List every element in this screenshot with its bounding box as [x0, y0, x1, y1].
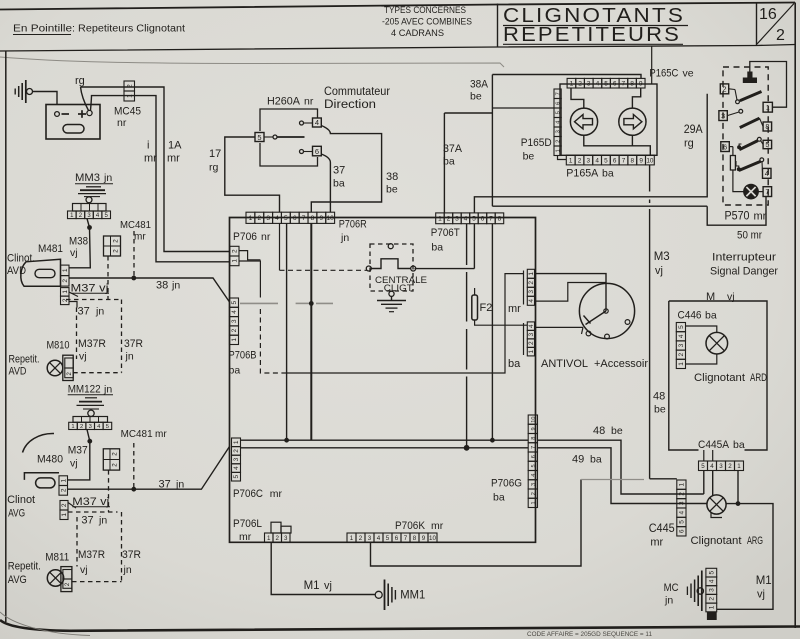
svg-text:vj: vj	[70, 247, 78, 259]
svg-text:6: 6	[395, 535, 399, 542]
hazard button symbol	[743, 78, 757, 84]
lamp Clinot AVG body	[24, 473, 59, 480]
svg-text:jn: jn	[103, 384, 112, 396]
svg-text:1: 1	[679, 482, 686, 486]
svg-text:jn: jn	[340, 232, 349, 244]
svg-text:8: 8	[531, 437, 537, 440]
svg-text:6: 6	[723, 142, 727, 151]
junction dot 49ba	[464, 445, 470, 451]
connector M481 pins 1-2	[61, 265, 70, 276]
svg-text:MC481: MC481	[121, 428, 153, 440]
svg-text:Direction: Direction	[324, 99, 376, 111]
svg-text:7: 7	[302, 215, 306, 222]
pin 3 P570	[719, 111, 727, 121]
svg-text:M37R: M37R	[78, 549, 105, 561]
dashed wire M37R vj vertical	[76, 308, 78, 360]
svg-text:mr: mr	[134, 232, 146, 243]
svg-text:P570: P570	[725, 211, 750, 223]
svg-text:3: 3	[528, 290, 535, 294]
svg-text:1: 1	[62, 268, 69, 272]
svg-text:M480: M480	[37, 454, 63, 466]
pin 1 P570	[763, 102, 772, 112]
svg-text:MC481: MC481	[120, 219, 151, 231]
svg-text:P165C: P165C	[649, 68, 678, 80]
svg-text:M37: M37	[68, 445, 88, 457]
svg-text:2: 2	[678, 353, 685, 357]
wire P570 pin1 over top to button	[750, 62, 787, 108]
connector P706 nr (2 pins)	[230, 246, 239, 256]
connector strip P706T pins 1-8	[436, 213, 445, 224]
connector strip P706R pins 1-10	[246, 212, 255, 223]
dashed wire 37R jn vertical	[121, 300, 123, 373]
svg-text:Signal Danger: Signal Danger	[710, 266, 778, 278]
svg-text:3: 3	[284, 535, 288, 542]
svg-text:2: 2	[232, 249, 239, 253]
svg-text:H260A: H260A	[267, 96, 301, 108]
svg-text:be: be	[523, 151, 535, 163]
wire: battery + to rg feed	[81, 87, 89, 111]
svg-text:10: 10	[326, 215, 334, 222]
svg-text:1: 1	[233, 440, 240, 444]
resistor in P570	[732, 147, 734, 156]
svg-text:1: 1	[531, 501, 537, 504]
pin 5 H260A	[255, 133, 264, 142]
svg-text:TYPES CONCERNES: TYPES CONCERNES	[384, 5, 466, 16]
lamp Clinot AVD body	[21, 259, 61, 286]
connector M480 pins 1-2	[59, 476, 68, 486]
hazard wiring box	[669, 301, 767, 450]
svg-text:7: 7	[556, 92, 562, 95]
svg-text:37R: 37R	[124, 338, 143, 350]
wire 38 jn from M481 pin2	[69, 278, 230, 302]
svg-text:6: 6	[613, 157, 617, 164]
svg-text:M481: M481	[38, 243, 63, 255]
svg-text:2: 2	[723, 85, 727, 94]
svg-text:2: 2	[276, 535, 280, 542]
dashed wire 37R jn vertical (AVG)	[121, 512, 123, 582]
wire M3 vj: P165A pin10 down to C445 pin1 (hops at crossings)	[649, 165, 651, 192]
svg-text:5: 5	[765, 140, 769, 149]
switch lever	[277, 136, 305, 138]
junction dot right of ARG lamp	[736, 501, 741, 506]
svg-text:ba: ba	[508, 358, 521, 370]
wire from P706 pin1 into box, down with hops	[239, 261, 260, 298]
svg-text:C446: C446	[678, 310, 702, 322]
svg-text:1: 1	[438, 216, 442, 223]
wire 48 be: P706G8 to C445A5	[538, 440, 704, 494]
junction dot 48be right	[490, 438, 495, 443]
wire 49 ba: P706G7 to ARG lamp	[538, 448, 708, 504]
svg-text:5: 5	[231, 300, 238, 304]
wire mr pin1 to antivol key	[535, 274, 607, 311]
lamp Repetit AVG	[47, 570, 63, 586]
svg-text:P706T: P706T	[431, 227, 460, 239]
svg-text:ba: ba	[431, 242, 443, 254]
svg-text:2: 2	[62, 298, 69, 302]
wire P165C9 to right lamp	[632, 88, 640, 108]
svg-text:2: 2	[447, 216, 451, 223]
svg-text:jn: jn	[171, 280, 180, 292]
wire C445A pin4 down to ARG lamp	[712, 471, 714, 497]
connector strip MM122 pins 1-5	[69, 422, 78, 429]
frame divider above cluster	[651, 46, 653, 84]
svg-text:2: 2	[528, 281, 535, 285]
svg-text:5: 5	[604, 81, 608, 88]
flasher top terminal	[388, 244, 393, 249]
frame: header bottom rule	[0, 45, 795, 52]
svg-text:5: 5	[106, 424, 109, 430]
svg-text:P706G: P706G	[491, 478, 522, 490]
connector mr on right edge (pins 1-4)	[527, 269, 534, 278]
svg-text:6: 6	[293, 215, 297, 222]
svg-text:4: 4	[231, 310, 238, 314]
switch contact S3 (rail-pin5)	[737, 145, 741, 149]
svg-text:vj: vj	[70, 458, 78, 470]
svg-text:5: 5	[257, 133, 261, 142]
svg-text:48: 48	[653, 391, 665, 403]
dashed wire pin4 to centrale input	[280, 269, 368, 271]
svg-text:C445A: C445A	[698, 439, 730, 451]
ground (battery chassis ground)	[25, 80, 27, 103]
svg-text:Repetit.: Repetit.	[9, 354, 40, 366]
fuse F2	[472, 295, 478, 320]
connector C445 pins 1-6	[677, 480, 686, 489]
svg-text:3: 3	[678, 343, 685, 347]
connector P165D pins 7-1	[554, 89, 561, 99]
svg-text:37R: 37R	[122, 549, 141, 561]
lamp Clignotant ARD	[706, 332, 728, 354]
svg-text:5: 5	[701, 463, 705, 470]
svg-text:mr: mr	[167, 153, 180, 165]
svg-text:rg: rg	[209, 162, 218, 174]
pin 7 P570	[763, 187, 772, 197]
svg-text:6: 6	[556, 102, 562, 105]
svg-text:P706B: P706B	[229, 350, 257, 362]
ba wire across box	[284, 274, 524, 373]
svg-text:6: 6	[315, 147, 319, 156]
svg-text:38A: 38A	[470, 79, 489, 91]
faint wire from P706B pin5	[240, 302, 278, 304]
svg-text:AVG: AVG	[8, 508, 25, 520]
cluster P165 box	[560, 84, 657, 155]
svg-text:2: 2	[60, 488, 67, 492]
svg-text:M1: M1	[756, 575, 772, 587]
svg-text:En Pointille: En Pointille	[13, 24, 73, 35]
svg-text:37: 37	[81, 515, 93, 527]
svg-text:2: 2	[62, 279, 69, 283]
svg-text:2: 2	[709, 597, 716, 601]
wire P165D1 hook to P165A1	[558, 155, 567, 159]
dashed wire M37R vj vertical (AVG)	[76, 517, 78, 567]
svg-text:38: 38	[156, 280, 168, 292]
svg-text:9: 9	[531, 427, 537, 430]
svg-text:Interrupteur: Interrupteur	[712, 252, 776, 264]
connector MC481 (AVG)	[103, 449, 119, 470]
junction dot 48be left	[284, 438, 289, 443]
svg-text:4: 4	[531, 474, 537, 477]
wire 1A mr: horizontal through MC45 and down	[81, 87, 230, 252]
flasher ground	[391, 296, 393, 300]
wire: ground to battery	[33, 92, 58, 105]
wire 50 mr: from 38A node to P570 pin7	[492, 205, 707, 207]
svg-text:AVD: AVD	[9, 366, 27, 378]
connector strip P706B pins 5-1	[230, 298, 239, 307]
svg-text:: Repetiteurs Clignotant: : Repetiteurs Clignotant	[72, 24, 185, 35]
central interconnection box outline	[230, 218, 536, 543]
svg-text:jn: jn	[125, 351, 134, 363]
svg-text:mr: mr	[155, 429, 167, 440]
svg-text:P165D: P165D	[521, 137, 552, 149]
svg-text:1: 1	[737, 463, 741, 470]
connector strip MM3 pins 1-5	[68, 211, 77, 219]
svg-text:MM1: MM1	[400, 590, 425, 602]
svg-text:2: 2	[556, 140, 562, 143]
svg-text:F2: F2	[480, 302, 493, 314]
wire C445A pin1 down to junction	[737, 471, 739, 504]
connector P706L housing tabs	[271, 522, 281, 533]
svg-text:1: 1	[766, 103, 770, 112]
svg-text:MM122: MM122	[68, 384, 101, 396]
switch H260A box	[260, 109, 318, 131]
svg-text:MM3: MM3	[75, 172, 100, 184]
svg-text:rg: rg	[684, 138, 694, 150]
connector P165C pins 1-9	[567, 78, 576, 88]
wire P706K pin3 down and right	[371, 480, 582, 567]
svg-text:M811: M811	[45, 552, 69, 564]
svg-text:2: 2	[679, 492, 686, 496]
antivol key lever	[586, 311, 607, 325]
svg-text:jn: jn	[98, 515, 107, 527]
svg-text:rg: rg	[75, 75, 85, 87]
svg-text:3: 3	[587, 81, 591, 88]
svg-text:4: 4	[233, 466, 240, 470]
svg-text:-205 AVEC COMBINES: -205 AVEC COMBINES	[382, 17, 472, 28]
pin 4 H260A	[313, 118, 322, 127]
lamp ARG stub	[711, 512, 722, 518]
svg-text:49: 49	[572, 454, 584, 466]
pin 2 P570	[720, 84, 728, 94]
svg-text:M810: M810	[47, 340, 70, 352]
ground MM1	[375, 591, 382, 598]
wire mr pin4 jog	[535, 283, 607, 302]
svg-text:10: 10	[429, 535, 436, 542]
connector ba on right edge (pins 4-1)	[527, 322, 534, 331]
svg-text:MC: MC	[664, 582, 679, 594]
wire P706T pin5 down to centrale output	[473, 224, 475, 269]
wire fuse top	[474, 288, 476, 295]
dashed wire to repetit AVD pin2	[73, 372, 121, 374]
connector strip P706L pins 1-3	[265, 533, 274, 542]
svg-text:mr: mr	[754, 211, 767, 223]
title box divider	[497, 4, 499, 48]
svg-text:i: i	[147, 140, 149, 152]
svg-text:P706C: P706C	[233, 488, 263, 500]
svg-text:1: 1	[678, 362, 685, 366]
svg-text:6: 6	[613, 81, 617, 88]
svg-text:9: 9	[639, 157, 643, 164]
svg-text:3: 3	[531, 483, 537, 486]
svg-text:P706K: P706K	[395, 520, 426, 532]
svg-text:8: 8	[630, 81, 634, 88]
dashed wire to repetit AVG pin	[72, 581, 122, 583]
svg-text:3: 3	[679, 501, 686, 505]
svg-text:4: 4	[528, 299, 535, 303]
svg-text:Clinot.: Clinot.	[7, 253, 35, 265]
svg-text:5: 5	[531, 464, 537, 467]
wire M1 vj: P706L pin2 to MM1 ground	[271, 542, 375, 594]
dashed wire MC481 AVG down	[108, 470, 110, 512]
connector MC45	[124, 81, 135, 91]
internal wire 17rg from pin4 down	[279, 223, 281, 270]
svg-text:REPETITEURS: REPETITEURS	[503, 23, 681, 46]
svg-text:mr: mr	[431, 520, 444, 532]
connector strip P706K pins 1-10	[347, 533, 356, 542]
svg-text:2: 2	[528, 341, 535, 345]
svg-text:2: 2	[776, 27, 785, 44]
svg-text:8: 8	[631, 157, 635, 164]
svg-text:M37 vj: M37 vj	[71, 283, 109, 295]
svg-text:3: 3	[231, 319, 238, 323]
svg-text:2: 2	[61, 503, 68, 507]
connector M37 (AVD)	[61, 288, 70, 297]
frame: bottom page border	[0, 620, 800, 631]
svg-text:Repetit.: Repetit.	[8, 561, 41, 573]
svg-text:M38: M38	[69, 236, 88, 248]
svg-text:mr: mr	[508, 303, 521, 315]
internal wire P706R pin5 down to 48be	[286, 223, 288, 440]
warning lamp in P570	[744, 184, 758, 198]
wire lamp to pin7	[758, 191, 763, 193]
svg-text:3: 3	[233, 457, 240, 461]
dashed wire 37R branch horizontal	[66, 299, 122, 301]
svg-text:10: 10	[646, 157, 654, 164]
junction dot on pin8 wire	[309, 301, 314, 306]
svg-text:nr: nr	[117, 117, 127, 129]
svg-text:37: 37	[333, 165, 345, 177]
svg-text:2: 2	[112, 463, 119, 467]
wire M38 vj: MM3 pin3 to M481 pin1	[69, 219, 90, 268]
svg-text:29A: 29A	[684, 124, 703, 136]
svg-text:7: 7	[622, 81, 626, 88]
svg-text:4: 4	[679, 510, 686, 514]
housing ticks C445A	[703, 450, 705, 461]
svg-text:2: 2	[233, 449, 240, 453]
svg-text:vj: vj	[655, 265, 663, 277]
svg-text:4: 4	[528, 324, 535, 328]
svg-text:1: 1	[232, 259, 239, 263]
svg-text:1: 1	[569, 157, 573, 164]
svg-text:9: 9	[639, 81, 643, 88]
wire i mr	[91, 96, 230, 262]
svg-text:37A: 37A	[443, 143, 463, 155]
svg-text:2: 2	[578, 157, 582, 164]
svg-text:P706L: P706L	[233, 518, 262, 530]
battery	[46, 105, 100, 140]
svg-text:1: 1	[528, 349, 535, 353]
svg-text:37: 37	[159, 479, 171, 491]
wire from P706 pin2 into box	[239, 251, 260, 260]
wire 37 ba: pin6 to P706R pin10	[321, 154, 330, 212]
flasher left terminal	[366, 266, 371, 271]
pin 6 H260A	[313, 146, 322, 156]
wire ARD lamp bottom to C446 pin1	[686, 355, 717, 365]
svg-text:ba: ba	[333, 178, 345, 190]
svg-text:M3: M3	[654, 251, 670, 263]
connector strip MC pins 5-1	[706, 568, 717, 577]
svg-text:17: 17	[209, 148, 221, 160]
svg-text:4: 4	[464, 216, 468, 223]
svg-text:3: 3	[556, 130, 562, 133]
ignition switch ANTIVOL circle	[579, 283, 634, 338]
svg-text:7: 7	[765, 187, 769, 196]
svg-text:5: 5	[679, 520, 686, 524]
wire ba pin to antivol lever	[535, 326, 584, 328]
svg-text:3: 3	[709, 588, 716, 592]
svg-text:vj: vj	[79, 351, 87, 363]
svg-text:Clignotant: Clignotant	[694, 372, 745, 384]
connector strip P706G pins 10-1	[528, 415, 537, 424]
faint wire continuation	[581, 479, 644, 481]
frame: right page border	[794, 3, 796, 629]
svg-text:mr: mr	[650, 537, 663, 549]
svg-text:4: 4	[709, 579, 716, 583]
wire centrale output	[415, 268, 475, 270]
svg-text:C445: C445	[649, 523, 675, 535]
svg-text:jn: jn	[95, 306, 104, 318]
svg-text:1: 1	[267, 535, 271, 542]
wire P165C1 to left lamp	[571, 88, 584, 108]
svg-text:1A: 1A	[168, 140, 182, 152]
svg-text:4: 4	[595, 157, 599, 164]
connector C445A pins 5-1	[699, 461, 708, 471]
svg-text:2: 2	[359, 535, 363, 542]
svg-text:2: 2	[231, 328, 238, 332]
ground MM122	[85, 397, 97, 399]
switch contact S1 (pin2-pin1)	[736, 100, 740, 104]
wire C445A pin5 down to 48be	[703, 471, 705, 495]
flasher bottom terminal	[389, 291, 394, 296]
svg-text:2: 2	[728, 463, 732, 470]
rail pin6 connection	[729, 146, 733, 148]
dashed wire MC481 down	[107, 256, 109, 300]
svg-text:Clignotant: Clignotant	[691, 535, 742, 547]
svg-text:CLIGT: CLIGT	[384, 283, 414, 293]
svg-text:3: 3	[721, 111, 725, 120]
svg-text:2: 2	[113, 239, 120, 243]
svg-text:be: be	[654, 404, 666, 416]
wire 29A rg: P706T pin5 up and right to P570 pin2	[474, 94, 707, 213]
svg-text:P165A: P165A	[566, 168, 599, 180]
svg-text:ba: ba	[493, 492, 505, 504]
svg-text:3: 3	[719, 463, 723, 470]
svg-text:3: 3	[368, 535, 372, 542]
svg-text:3: 3	[89, 424, 92, 430]
svg-text:vj: vj	[80, 564, 88, 576]
svg-text:9: 9	[319, 215, 323, 222]
svg-text:5: 5	[233, 475, 240, 479]
dashed wire MC481 to 37 jn dot	[133, 443, 135, 488]
svg-text:8: 8	[311, 215, 315, 222]
svg-text:5: 5	[386, 535, 390, 542]
wire lamp bottoms to P165A10	[584, 135, 651, 155]
switch unit P570 dashed box	[723, 67, 768, 205]
page number box 16/2	[756, 3, 758, 45]
svg-text:50 mr: 50 mr	[737, 230, 762, 242]
wire 38A be: P706T4/5 area up to P165C9 and P165D5	[492, 75, 641, 79]
indicator lamp left (with left arrow)	[570, 108, 597, 135]
svg-text:M37R: M37R	[78, 338, 106, 350]
junction dot M37	[87, 439, 92, 444]
